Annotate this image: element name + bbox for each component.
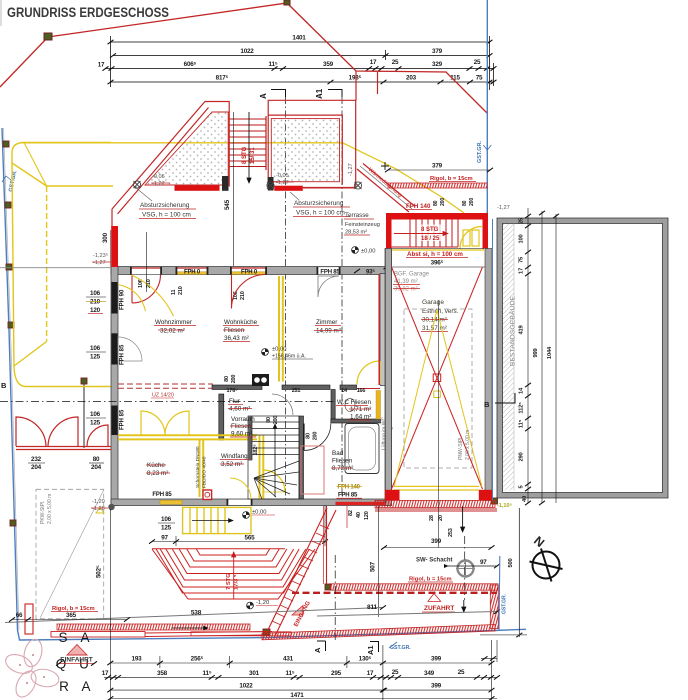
svg-text:Zimmer: Zimmer xyxy=(316,319,337,326)
svg-text:256⁵: 256⁵ xyxy=(191,656,204,663)
svg-text:A: A xyxy=(81,679,90,694)
svg-text:40: 40 xyxy=(356,512,362,518)
Bestandsgebaeude box xyxy=(497,218,668,498)
svg-text:FPH 85: FPH 85 xyxy=(120,344,126,365)
svg-text:538: 538 xyxy=(191,610,202,617)
svg-text:FPH 140: FPH 140 xyxy=(338,485,361,491)
svg-text:-1,20: -1,20 xyxy=(256,600,269,606)
svg-text:251: 251 xyxy=(292,388,301,394)
left wall openings/windows xyxy=(112,333,118,364)
svg-text:200: 200 xyxy=(440,198,446,206)
svg-text:545: 545 xyxy=(224,199,231,210)
svg-text:290: 290 xyxy=(519,452,525,461)
svg-text:Fliesen: Fliesen xyxy=(231,423,252,430)
svg-text:FPH 85: FPH 85 xyxy=(120,409,126,430)
svg-text:253: 253 xyxy=(448,528,454,537)
svg-text:25: 25 xyxy=(519,217,525,224)
garage X red xyxy=(392,267,483,489)
svg-text:106: 106 xyxy=(90,290,101,297)
house outer walls xyxy=(111,249,392,506)
svg-text:106: 106 xyxy=(90,411,101,418)
svg-text:-0,05: -0,05 xyxy=(276,173,289,179)
svg-text:500: 500 xyxy=(508,558,514,567)
svg-text:1022: 1022 xyxy=(240,48,254,55)
svg-text:-0,05: -0,05 xyxy=(152,174,165,180)
svg-text:±0,00: ±0,00 xyxy=(272,347,286,353)
Bad door arc xyxy=(304,424,331,451)
yellow interior walls xyxy=(118,276,283,499)
svg-text:17: 17 xyxy=(367,670,374,677)
svg-text:-1,27: -1,27 xyxy=(152,181,165,187)
svg-text:Rigol, b = 15cm: Rigol, b = 15cm xyxy=(430,176,473,182)
svg-text:A: A xyxy=(259,93,268,99)
svg-text:11⁵: 11⁵ xyxy=(202,670,211,677)
section line A dash-dot xyxy=(285,97,287,499)
svg-text:200: 200 xyxy=(469,198,475,206)
svg-text:GST.GR.: GST.GR. xyxy=(390,645,411,651)
red terraced steps xyxy=(152,549,315,599)
svg-text:Küche: Küche xyxy=(147,462,165,469)
svg-text:PKW-StPl.: PKW-StPl. xyxy=(40,500,46,524)
left terrace dotted floor xyxy=(145,112,228,185)
stove xyxy=(252,374,269,386)
B section marker xyxy=(495,393,515,403)
svg-text:25: 25 xyxy=(458,669,465,676)
svg-text:A1: A1 xyxy=(366,645,375,655)
garage side walls grey xyxy=(385,249,391,506)
Vorraum door arc xyxy=(272,394,293,415)
garage red walls xyxy=(386,213,488,220)
left terrace red diagonal band xyxy=(112,102,229,228)
svg-text:93⁵: 93⁵ xyxy=(366,270,375,276)
svg-text:Schornstein DN180: Schornstein DN180 xyxy=(195,446,201,488)
svg-text:11⁵: 11⁵ xyxy=(268,61,277,68)
svg-text:359: 359 xyxy=(323,61,334,68)
svg-text:BESTANDSGEBÄUDE: BESTANDSGEBÄUDE xyxy=(509,295,517,366)
red door arcs top wall xyxy=(232,275,266,309)
yellow carport outline left xyxy=(12,143,113,387)
svg-text:Wohnzimmer: Wohnzimmer xyxy=(155,319,192,326)
svg-text:A1: A1 xyxy=(315,88,324,99)
svg-text:1,71 m²: 1,71 m² xyxy=(350,406,371,413)
yellow double doors Kueche xyxy=(141,411,285,492)
EINFAHRT label xyxy=(67,645,87,656)
EINGANG walkway xyxy=(267,506,337,635)
right terrace outer red frame xyxy=(268,71,377,188)
svg-text:396⁵: 396⁵ xyxy=(431,260,444,267)
svg-text:999: 999 xyxy=(533,347,539,357)
svg-text:200: 200 xyxy=(231,375,237,384)
right terrace dotted floor xyxy=(271,119,339,182)
svg-text:80: 80 xyxy=(462,200,468,206)
svg-text:GST.GR.: GST.GR. xyxy=(477,141,483,163)
svg-text:120: 120 xyxy=(364,511,370,520)
svg-text:36,43 m²: 36,43 m² xyxy=(224,335,249,342)
garage yellow door xyxy=(460,227,482,249)
garage stairs red xyxy=(392,220,459,248)
blue boundary right (GST.GR.) xyxy=(486,0,488,214)
500 dim vertical right xyxy=(518,508,520,637)
svg-text:365: 365 xyxy=(66,612,77,619)
svg-text:Fliesen: Fliesen xyxy=(224,327,245,334)
svg-text:204: 204 xyxy=(91,464,102,471)
svg-text:-1,27: -1,27 xyxy=(276,180,289,186)
dim 545 vertical xyxy=(233,112,235,266)
svg-text:EINFAHRT: EINFAHRT xyxy=(60,657,93,664)
svg-text:-1,27: -1,27 xyxy=(497,205,510,211)
svg-text:301: 301 xyxy=(249,670,260,677)
svg-text:80: 80 xyxy=(433,200,439,206)
svg-text:UZ 14/20: UZ 14/20 xyxy=(152,393,174,399)
blue boundary along garage right xyxy=(492,219,494,500)
top dimension block xyxy=(105,36,494,90)
interior stairs xyxy=(248,416,299,499)
svg-text:FPH 85: FPH 85 xyxy=(152,492,172,498)
FPH labels left wall xyxy=(120,289,126,430)
svg-text:204: 204 xyxy=(31,464,42,471)
svg-text:2,00 x 5,00 m: 2,00 x 5,00 m xyxy=(465,430,471,460)
svg-text:39,82 m²: 39,82 m² xyxy=(394,287,418,293)
bottom wall red sill right xyxy=(336,502,392,505)
grey door arc top wall right xyxy=(318,276,339,297)
svg-text:14: 14 xyxy=(519,387,525,394)
svg-text:97: 97 xyxy=(161,535,168,542)
svg-text:166: 166 xyxy=(357,388,366,394)
svg-text:B: B xyxy=(1,381,7,390)
svg-text:Absturzsicherung: Absturzsicherung xyxy=(140,202,190,209)
svg-text:ZUFAHRT: ZUFAHRT xyxy=(424,605,454,612)
svg-text:379: 379 xyxy=(432,163,443,170)
svg-text:176⁵: 176⁵ xyxy=(227,388,239,394)
long yellow line through terraces xyxy=(20,143,464,213)
bottom wall entrance opening xyxy=(228,500,251,506)
blue boundary left xyxy=(2,128,526,640)
svg-text:75: 75 xyxy=(519,256,525,263)
section line A1 dash-dot xyxy=(341,97,343,499)
svg-text:8 STG: 8 STG xyxy=(421,227,439,233)
svg-text:28: 28 xyxy=(429,515,435,521)
svg-text:130⁵: 130⁵ xyxy=(359,656,372,663)
svg-text:329: 329 xyxy=(432,61,443,68)
svg-text:-1,27: -1,27 xyxy=(93,260,106,266)
svg-text:193⁵: 193⁵ xyxy=(349,75,362,82)
svg-text:31,57 m²: 31,57 m² xyxy=(422,325,447,332)
dim 379 + Rigol above garage xyxy=(388,169,490,171)
svg-text:Windfang: Windfang xyxy=(221,453,248,460)
svg-text:-1,23⁵: -1,23⁵ xyxy=(93,252,108,259)
svg-text:1022: 1022 xyxy=(239,683,253,690)
svg-text:17: 17 xyxy=(519,268,525,274)
svg-text:32,02 m²: 32,02 m² xyxy=(160,328,185,335)
yellow + black line under stairs xyxy=(392,248,484,250)
svg-text:210: 210 xyxy=(90,299,101,306)
svg-text:2,00 x 5,00 m: 2,00 x 5,00 m xyxy=(47,494,53,524)
svg-text:BGF. Garage: BGF. Garage xyxy=(394,272,430,278)
svg-text:Feinsteinzeug: Feinsteinzeug xyxy=(345,222,380,228)
section marker A top xyxy=(271,90,342,98)
svg-text:120: 120 xyxy=(90,307,101,314)
interior wall horizontal (Flur) xyxy=(212,385,381,499)
svg-text:1471: 1471 xyxy=(290,692,304,699)
logo letters xyxy=(56,630,91,694)
svg-text:28,53 m²: 28,53 m² xyxy=(345,230,367,236)
svg-text:80: 80 xyxy=(306,433,312,439)
svg-text:80: 80 xyxy=(93,456,100,463)
Zimmer door arc yellow xyxy=(357,385,380,390)
garden wall doors left xyxy=(16,417,111,450)
svg-text:Bad: Bad xyxy=(332,450,344,457)
svg-text:25: 25 xyxy=(474,59,481,66)
svg-text:17: 17 xyxy=(98,62,105,69)
bathtub xyxy=(345,424,379,474)
svg-text:9,60 m²: 9,60 m² xyxy=(231,431,252,438)
svg-text:200: 200 xyxy=(313,432,319,441)
svg-text:-1,10⁵: -1,10⁵ xyxy=(497,503,513,509)
vertical dim chains in box xyxy=(528,208,556,503)
svg-text:75: 75 xyxy=(476,75,483,82)
svg-text:419: 419 xyxy=(519,324,525,334)
svg-text:11: 11 xyxy=(171,289,177,295)
terrain lines xyxy=(5,608,383,623)
garage yellow V xyxy=(394,310,482,487)
svg-text:-1,28: -1,28 xyxy=(92,506,105,512)
ZUFAHRT area xyxy=(330,584,498,590)
svg-text:VSG, h = 100 cm: VSG, h = 100 cm xyxy=(296,210,345,217)
svg-text:3,52 m²: 3,52 m² xyxy=(221,461,242,468)
svg-text:18 / 25: 18 / 25 xyxy=(421,236,440,242)
svg-text:817⁵: 817⁵ xyxy=(216,75,229,82)
svg-text:VSG, h = 100 cm: VSG, h = 100 cm xyxy=(142,212,191,219)
level marker living room xyxy=(262,349,269,356)
svg-text:FPH 0: FPH 0 xyxy=(241,270,258,276)
svg-text:82: 82 xyxy=(348,510,354,516)
svg-text:606⁵: 606⁵ xyxy=(184,61,197,68)
walk line arrow down xyxy=(248,112,250,183)
svg-text:1044: 1044 xyxy=(547,346,553,359)
svg-text:A: A xyxy=(80,630,89,645)
svg-text:PNW-StPl.: PNW-StPl. xyxy=(458,436,464,460)
svg-text:25: 25 xyxy=(392,59,399,66)
svg-text:811: 811 xyxy=(367,604,377,611)
svg-text:FBD/DO 40/40: FBD/DO 40/40 xyxy=(202,456,208,488)
svg-text:±0,00: ±0,00 xyxy=(361,249,375,255)
svg-text:40: 40 xyxy=(522,496,528,502)
svg-text:GST.GR.: GST.GR. xyxy=(502,593,508,614)
svg-text:A: A xyxy=(313,647,322,653)
svg-text:Absturzsicherung: Absturzsicherung xyxy=(294,200,344,207)
svg-text:8,72 m²: 8,72 m² xyxy=(332,465,353,472)
svg-text:20: 20 xyxy=(438,515,444,521)
svg-text:210: 210 xyxy=(178,286,184,295)
svg-text:FPH 90: FPH 90 xyxy=(120,289,126,310)
svg-text:431: 431 xyxy=(283,656,294,663)
svg-text:507: 507 xyxy=(370,561,377,572)
svg-text:Terrasse: Terrasse xyxy=(345,212,369,219)
left wall dim stacks xyxy=(90,290,101,427)
svg-text:±0,00: ±0,00 xyxy=(252,510,266,516)
svg-text:11⁵: 11⁵ xyxy=(519,419,525,428)
svg-text:FPH 0: FPH 0 xyxy=(184,270,201,276)
garage bottom xyxy=(394,485,479,487)
red property boundary top xyxy=(0,3,487,113)
svg-text:125: 125 xyxy=(161,525,172,532)
svg-text:8 STG: 8 STG xyxy=(242,146,248,164)
logo flower watermark xyxy=(3,637,60,700)
svg-text:4,60 m²: 4,60 m² xyxy=(229,406,250,413)
bottom dimension rows xyxy=(104,509,497,700)
svg-text:502⁵: 502⁵ xyxy=(96,565,103,578)
svg-text:FPH 85: FPH 85 xyxy=(338,493,358,499)
PKW parking dashed left xyxy=(36,489,104,619)
compass xyxy=(530,549,563,582)
svg-text:W.C Fliesen: W.C Fliesen xyxy=(337,399,371,406)
svg-text:11⁵: 11⁵ xyxy=(285,670,294,677)
shower red xyxy=(301,446,324,494)
svg-text:-1,27: -1,27 xyxy=(348,163,354,176)
A / A1 bottom markers xyxy=(325,641,327,651)
garage dashed parking rect xyxy=(404,309,472,468)
svg-text:7 STG: 7 STG xyxy=(226,573,232,590)
svg-text:66: 66 xyxy=(16,612,23,619)
Waermedaemmung diagonal band xyxy=(357,164,415,213)
svg-text:+156,46m ü.A.: +156,46m ü.A. xyxy=(272,354,306,360)
svg-text:R: R xyxy=(59,679,69,694)
washbasin WC xyxy=(345,399,355,412)
svg-text:112⁵: 112⁵ xyxy=(519,402,525,414)
svg-text:200: 200 xyxy=(273,416,279,425)
svg-text:349: 349 xyxy=(424,670,435,677)
svg-text:399: 399 xyxy=(431,683,442,690)
svg-text:80: 80 xyxy=(266,417,272,423)
svg-text:17: 17 xyxy=(102,670,109,677)
svg-text:17: 17 xyxy=(370,59,377,66)
svg-text:125: 125 xyxy=(90,354,101,361)
svg-text:203: 203 xyxy=(406,75,417,82)
svg-text:182⁵: 182⁵ xyxy=(253,444,259,456)
svg-text:193: 193 xyxy=(132,656,143,663)
svg-text:100: 100 xyxy=(519,234,525,243)
svg-text:Fliesen: Fliesen xyxy=(332,458,353,465)
svg-text:B: B xyxy=(484,400,490,409)
right terrace bottom red bar xyxy=(274,186,303,191)
green boundary markers left xyxy=(3,141,498,635)
svg-text:379: 379 xyxy=(432,48,443,55)
svg-text:399: 399 xyxy=(431,656,442,663)
svg-text:106: 106 xyxy=(90,345,101,352)
chimney xyxy=(203,490,212,500)
room labels xyxy=(147,319,371,477)
svg-text:295: 295 xyxy=(331,670,342,677)
svg-text:1401: 1401 xyxy=(292,35,306,42)
svg-text:FPH 140: FPH 140 xyxy=(406,203,431,210)
svg-text:125: 125 xyxy=(90,420,101,427)
interior small dims xyxy=(224,375,365,456)
svg-text:FPH 85: FPH 85 xyxy=(320,270,340,276)
svg-text:25: 25 xyxy=(392,669,399,676)
svg-text:80: 80 xyxy=(224,376,230,382)
svg-text:1,64 m²: 1,64 m² xyxy=(350,414,371,421)
Absturzsicherung labels xyxy=(135,187,152,201)
svg-text:210: 210 xyxy=(240,291,246,300)
svg-text:232: 232 xyxy=(31,456,42,463)
exterior yellow stair bottom xyxy=(183,507,251,533)
svg-text:300: 300 xyxy=(102,232,109,243)
svg-text:14,99 m²: 14,99 m² xyxy=(316,328,341,335)
svg-text:GRUNDRISS ERDGESCHOSS: GRUNDRISS ERDGESCHOSS xyxy=(7,5,169,20)
svg-text:Abst si, h = 100 cm: Abst si, h = 100 cm xyxy=(407,251,463,258)
svg-text:Garage: Garage xyxy=(422,299,444,306)
svg-text:15/ 31: 15/ 31 xyxy=(250,147,256,164)
svg-text:SW- Schacht: SW- Schacht xyxy=(416,558,453,564)
svg-text:97: 97 xyxy=(480,559,487,566)
svg-text:106: 106 xyxy=(161,516,172,523)
left terrace bottom red bar xyxy=(175,186,220,191)
exterior stair between terraces (8 STG) xyxy=(229,116,266,170)
svg-text:-1,20: -1,20 xyxy=(92,499,105,505)
rotated window dims top wall xyxy=(138,279,246,300)
top wall window openings xyxy=(130,267,341,275)
svg-text:358: 358 xyxy=(157,670,168,677)
svg-text:565: 565 xyxy=(245,535,256,542)
svg-text:Vorraum: Vorraum xyxy=(231,416,255,423)
svg-text:Rigol, b = 15cm: Rigol, b = 15cm xyxy=(409,577,452,583)
svg-text:8,23 m²: 8,23 m² xyxy=(147,470,168,477)
svg-text:Wohnküche: Wohnküche xyxy=(224,319,258,326)
svg-text:17/3 ⁵: 17/3 ⁵ xyxy=(234,574,240,590)
red bar on left wall top xyxy=(111,226,118,267)
svg-text:S: S xyxy=(58,630,67,645)
svg-text:399: 399 xyxy=(431,538,442,545)
